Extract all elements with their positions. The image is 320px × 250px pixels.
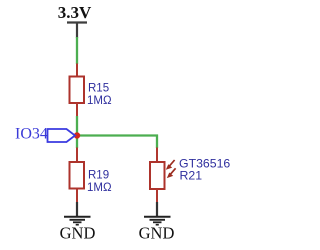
svg-text:R21: R21 [180, 169, 203, 183]
pin R21 bottom [156, 189, 158, 203]
svg-text:GND: GND [139, 224, 175, 243]
port flag IO34 [48, 129, 76, 142]
pin R21 top [156, 148, 158, 163]
photoresistor light arrow 2 [167, 168, 176, 178]
svg-text:IO34: IO34 [15, 126, 48, 143]
photoresistor light arrow 1 [166, 160, 175, 170]
power symbol 3.3V bar [67, 21, 87, 23]
wire junction to right branch [77, 134, 158, 136]
photoresistor R21 body [150, 162, 165, 189]
power symbol stub [76, 23, 78, 39]
resistor R15 [70, 77, 85, 104]
wire 3.3V to R15 [76, 37, 78, 64]
svg-text:GND: GND [60, 224, 96, 243]
pin R19 bottom [76, 189, 78, 203]
ground stub left [76, 202, 78, 217]
pin R15 top [76, 64, 78, 78]
ground stub right [156, 202, 158, 217]
ground symbol left [64, 217, 91, 225]
resistor R19 [70, 162, 85, 189]
pin R15 bottom [76, 103, 78, 117]
svg-text:1MΩ: 1MΩ [87, 95, 112, 107]
wire R15 to junction to R19 [76, 116, 78, 148]
ground symbol right [144, 217, 171, 225]
svg-text:1MΩ: 1MΩ [87, 182, 112, 194]
svg-text:R15: R15 [88, 83, 109, 95]
pin R19 top [76, 148, 78, 163]
wire corner down right branch [156, 135, 158, 149]
junction dot node IO34 [74, 132, 80, 138]
svg-text:3.3V: 3.3V [58, 3, 92, 22]
svg-text:R19: R19 [88, 170, 109, 182]
